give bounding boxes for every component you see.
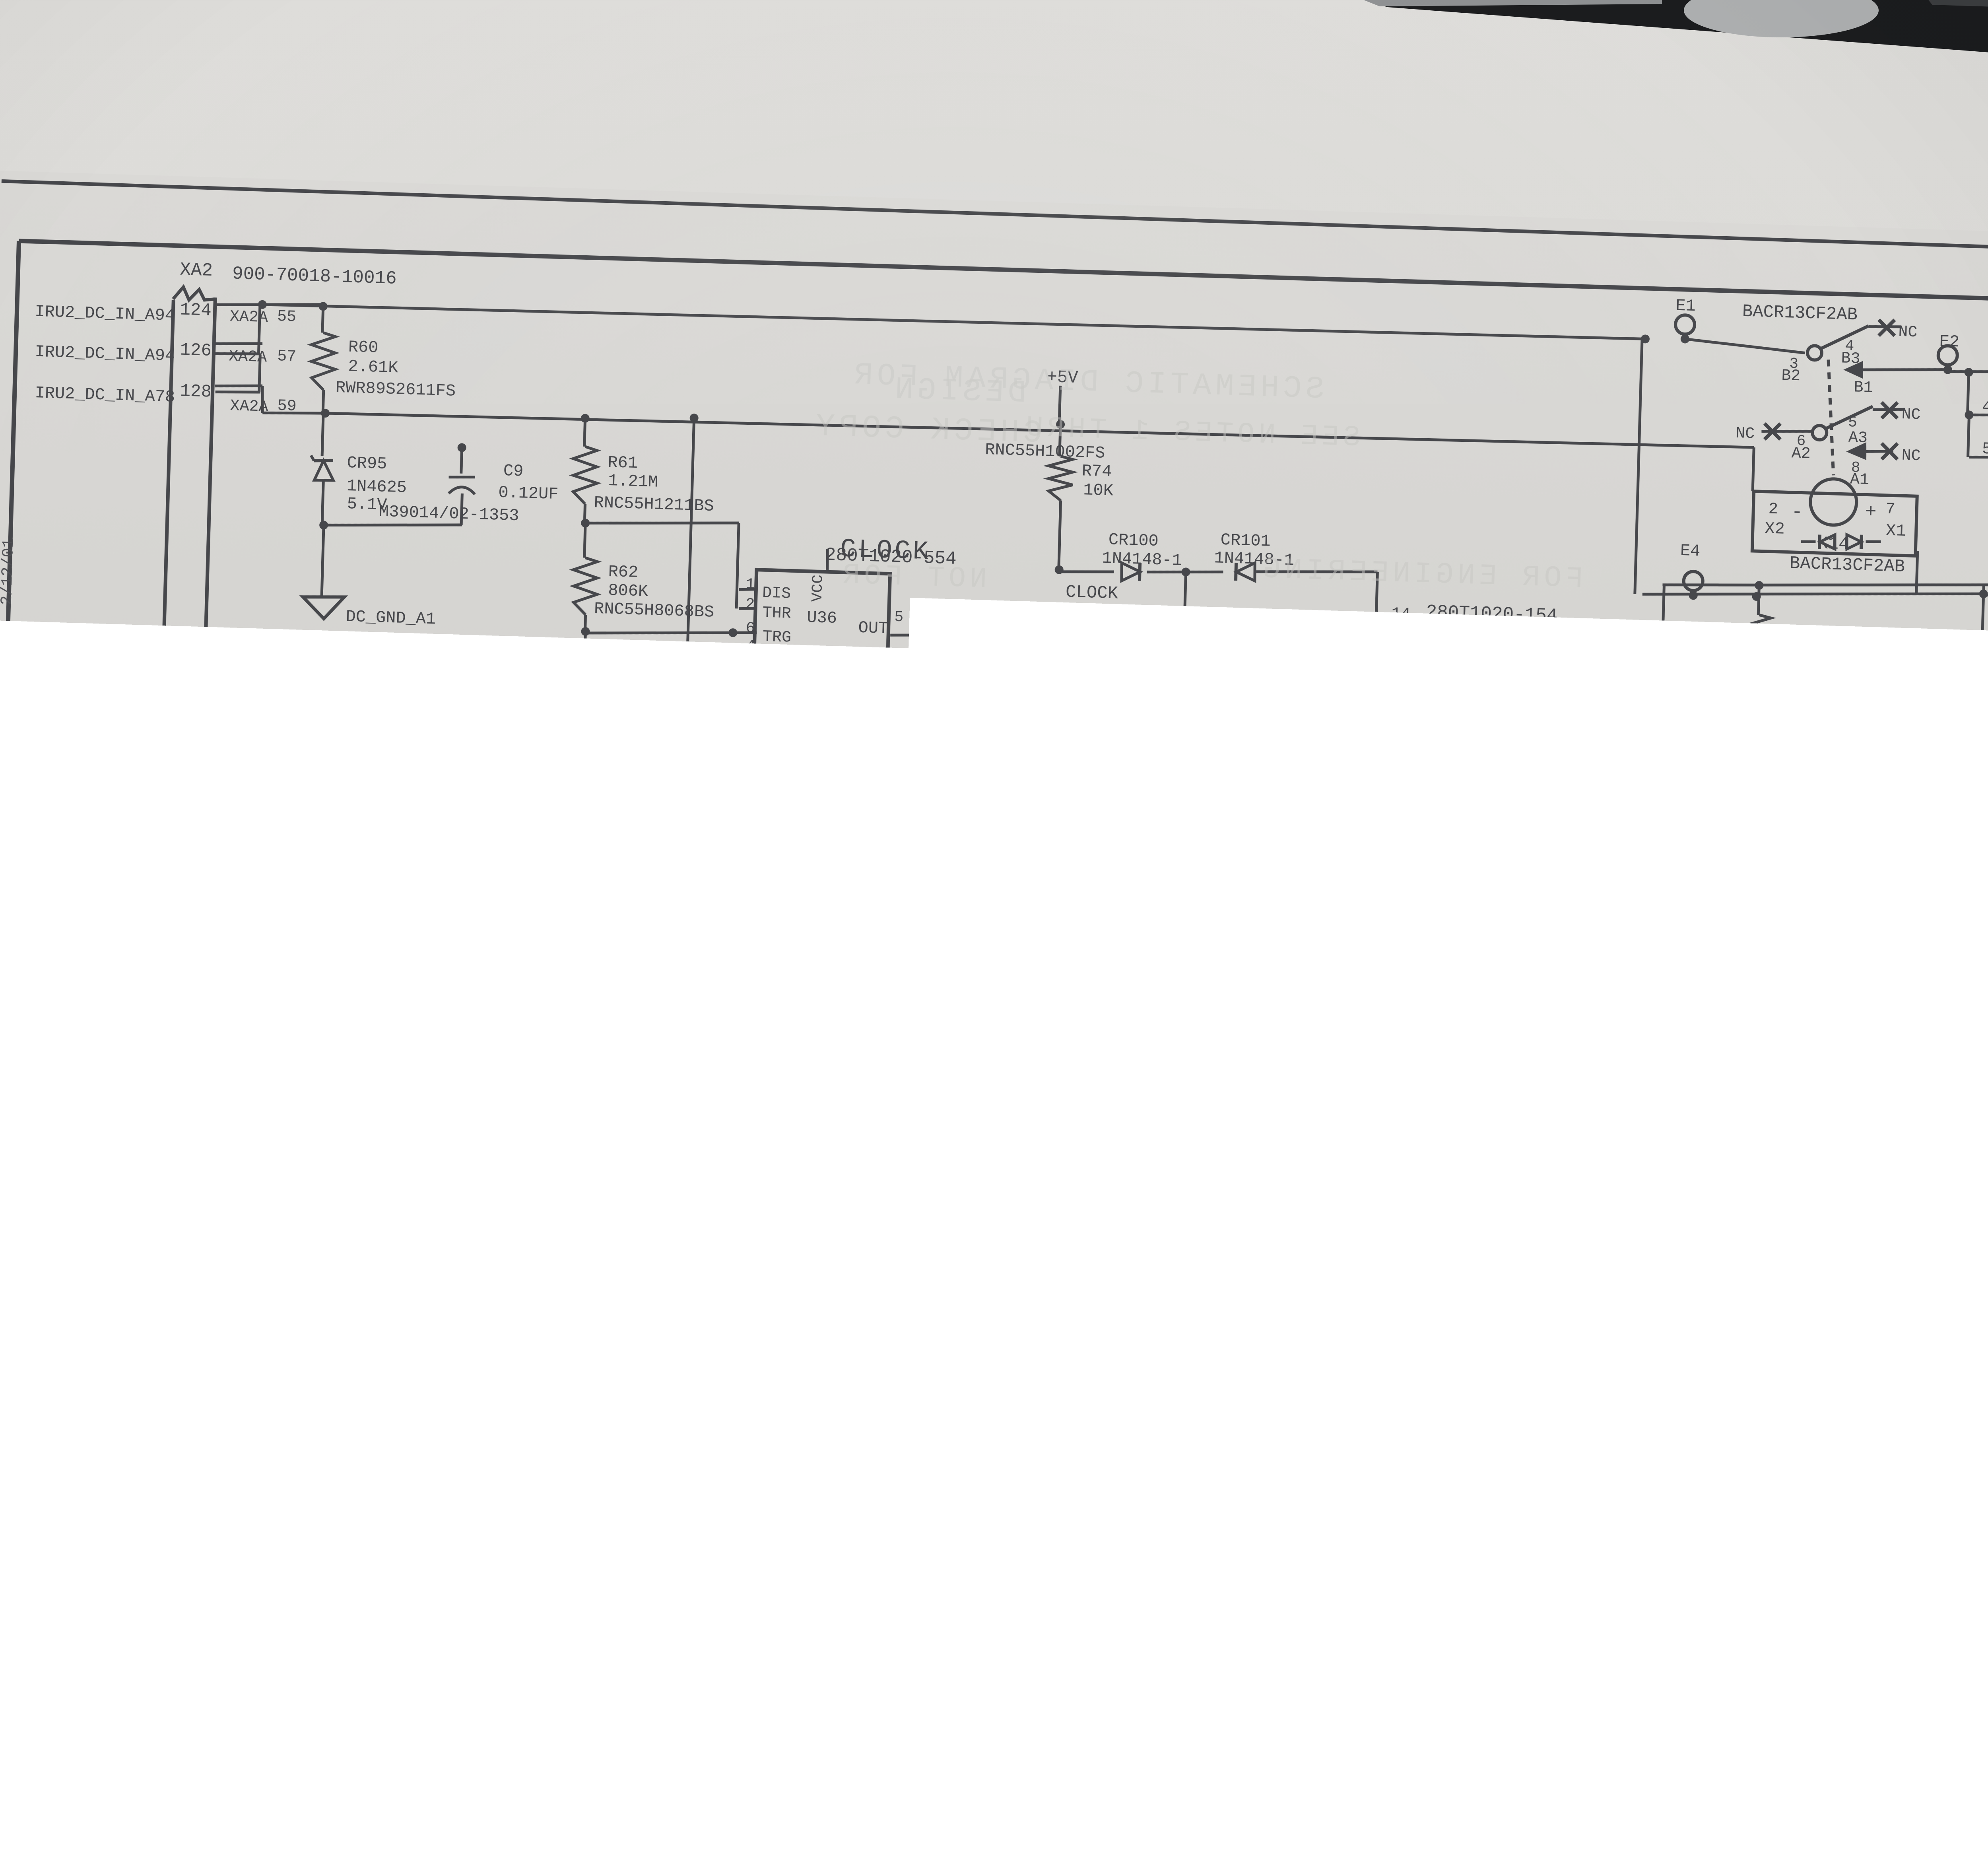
wire clock vertical down to latch CLK [1183,572,1186,660]
bus 71 XA2A -> 209 CLK_OUT_A_JUMPER [1206,902,1988,955]
wire minus vertical [747,1140,748,1141]
resistor R62 806K RNC55H8068BS [584,523,585,558]
resistor R75 100K RNC55H1003FS [1184,655,1194,665]
title block vertical dividers [1756,1609,1759,1706]
resistor R63 1.07M RNC55H1074FS [352,810,378,853]
wire R61 bottom node to U36 DIS/THR [581,519,590,528]
diode CR96 1N4148-1 [247,994,264,1012]
switch A2-A3 contact [1812,425,1827,440]
NC left of A2 [1761,430,1812,433]
mate bracket 49 XA2A [1969,412,1988,418]
wire pin128 join to second bus [262,386,263,413]
wire bus2 junction vertical (clock jumper) [1202,933,1211,942]
U39 pin 1 wire from R76 [1758,662,1759,688]
wire B1 to E2 [1861,367,1948,373]
resistor R72 5.11K RNC55H5111FS [334,1405,390,1428]
op-amp comparator1 280T1020-542 LM139A (AC monitor) [575,978,688,1127]
drawing frame left border [0,241,19,1731]
wire 115VAC_RTN rail [214,1172,542,1191]
ground below pwr/gnd box [1381,1111,1423,1135]
wire comparator3 output to R77 [1741,732,1744,836]
resistor R71 17.2K RNC55H1722DS [240,1303,241,1331]
wire bus junction to switch B2 [1641,334,1650,344]
resistor R61 1.21M RNC55H1211BS [584,418,585,447]
diode CR101 1N4148-1 [1236,562,1255,581]
wire R73 bottom to R81 [813,1567,899,1572]
wire RESET node to counter circuit R input [1564,1196,1565,1199]
U39 LED [1839,705,1855,722]
U39 light arrows [1866,714,1881,723]
wire +5V node to R74 [1056,420,1065,429]
wire comparator2 output RESET node [901,1191,1060,1200]
resistor R66 165K RNC55H1653FS [532,1235,533,1273]
wire second bus (pins 126/128) running right [325,404,1754,457]
resistor R67 1M RNC55H1004FS [528,1188,537,1197]
wire drop 49 to 51 [1968,415,1969,457]
wire 115VAC_MON from bar [213,776,365,785]
wire comparator4 output RESET_N [1118,1411,1340,1424]
resistor R74 10K RNC55H1002FS [1060,424,1060,456]
wire pin 126 drop [262,344,263,354]
op-amp comparator4 280T1020-5434 LM139A [1007,1373,1120,1487]
U38-2 pin 6 RST bubble [1280,1410,1293,1423]
wire U36 GND pin down to rail [820,700,822,768]
wire relay X1 to E3 rail [1916,551,1918,594]
wire K to ground [1386,709,1388,746]
wire CLK from left (clock net) [1158,1393,1280,1400]
wire node left to CR96 branch [255,886,363,892]
wire U36 OUT pin5 down [890,633,952,637]
wire RESET net from CR102 line [980,1330,1238,1346]
wire U36 pin3 CV down to C11 [715,679,757,682]
wire ground rail under U36 [586,761,823,776]
resistor R64 100K RNC55H1003FS [362,998,364,1051]
IC U38 HC73 LATCH box [1421,621,1552,724]
wire CR95-C9 bottom join [324,521,462,529]
arrow B1 (wiper) [1846,363,1862,377]
resistor R76 2.8K RLR20C2801FS [1758,585,1759,615]
wire AC monitor node row [363,991,579,1004]
node below R63 [359,883,368,892]
U38-2 pin 5 CLK bubble [1280,1390,1293,1403]
IC U36 LM556C CLOCK timer box [753,570,890,704]
zener CR95 1N4625 5.1V [322,413,323,456]
ground below CR134 [1963,770,1988,794]
ground below R66 [512,1337,553,1360]
wire IP from U38-2 Q [1468,1221,1495,1223]
wire +5V bus into U36 VCC [827,549,828,570]
drawing frame top border [19,238,1988,309]
connector XA2 left bar [138,300,173,1560]
ground below R75 [1165,758,1207,781]
capacitor C13 0.56UF M39003/01-3072 [237,1416,238,1454]
AND gate U41 HC21 (upper) [1880,1218,1948,1278]
wire comparator3 plus input [1563,762,1628,766]
capacitor C11 0.01UF M39014/01-1575 [714,681,714,715]
wire clock net vertical (mid) [1153,860,1157,999]
wire DECODER_OUTPUT net [1332,659,1338,853]
resistor R60 2.61K RWR89S2611FS [322,305,323,332]
IC U40 HC4020 counter box [1503,1167,1642,1457]
wire CR101 to latch J net [1256,568,1378,575]
U40 pin 10 IP bubble [1497,1215,1510,1228]
ground below R73 [813,1570,814,1607]
switch B2-B3 contact [1807,346,1822,360]
wire R62 bottom TRG node [581,627,590,636]
wire comparator1 plus from R65 [542,1084,580,1086]
U39 pin 2 wire from comparator output [1744,730,1825,734]
connector XA2 left bar bottom break [175,1560,218,1584]
title block bottom line [1700,1688,1988,1721]
wire comparator1 minus from AC node [449,993,579,1001]
wire bus from pin 124 to top-right switch area [262,297,1645,347]
AND gate U41 HC21 (lower) [1750,1327,1842,1418]
opto U39 OMA134L box [1822,676,1932,786]
node comparator1 output [725,1044,734,1053]
wire U36 RST from second bus [687,418,694,650]
wire 47-junction drop to 49 [1967,372,1969,415]
capacitor C9 0.12UF M39014/02-1353 [461,448,462,474]
wire R80/R81 node to comparator4 plus [903,1457,1010,1463]
resistor R78 10K RNC55H1002FS on RESET_N bus [1325,886,1377,909]
XA2A mate bracket 55 [258,305,260,354]
IC U36 LM556C power-up timer box [524,1371,661,1508]
wire output node down to pin6 node [745,1051,747,1141]
wire TEST_MONITOR drop [749,962,751,970]
capacitor C10 0.0051UF CCR06CG512FR [584,631,585,691]
resistor R70 1K RNC55H1001FS [297,1251,359,1275]
wire E3 stem down [1980,585,1984,699]
zener CR134 1N4946 56V [1983,699,1984,718]
dashed link to relay actuator [1825,359,1837,475]
wire latch-Q12 top rail to R76 [1662,582,1759,588]
wire RST from +5V column [399,1263,404,1459]
wire latch RST from below [1295,673,1409,682]
wire Q12 up to E-line [1662,585,1664,645]
wire E2 to connector pin 47 [1948,369,1988,375]
arrow A1 (wiper) [1849,444,1865,458]
wire PWRUP_A with R70 [209,1260,297,1265]
diode CR100 1N4148-1 [1060,570,1114,573]
label CLOCK (mid) [1152,936,1161,945]
capacitor C14 0.01UF M39014/01-1575 [693,1504,695,1555]
ground below C13 [217,1510,258,1534]
wire E1 vertical down to bottom rail [1635,339,1642,594]
title block divider rows [1759,1669,1988,1687]
U39 phototransistor [1896,716,1897,748]
gate2 input wires [1862,1339,1863,1340]
page edge line of sheet above [0,181,1988,256]
mate bracket 51 XA2A [1969,455,1988,460]
wire comparator4 minus from RESET net [980,1394,1010,1396]
wire latch CLK from clock vertical [1186,652,1409,666]
resistor R81 97.6K RNC55H9762FS [902,1460,903,1499]
relay diodes inside box [1820,534,1835,549]
wire PWRUP_B [203,1284,813,1322]
latch pin 2 RST bubble [1409,670,1422,683]
wire K tie [1234,1418,1235,1440]
XA2A mate bracket 57 [259,355,260,392]
gate1 input wires from Q4 Q5 Q8 Q10 [1846,1203,1847,1220]
wire THR/TRG node from R72 [478,1411,487,1420]
switch B3 NC terminal [1869,326,1901,327]
wire bottom rail under relay [1642,583,1984,604]
node CLOCK [1054,565,1064,574]
wire CV to C14 [495,1488,528,1490]
op-amp comparator 280T1020-5433 LM139A [1624,665,1746,802]
wire pin6 run to comparator2 minus [747,1139,797,1142]
resistor R73 10K RNC55H1002FS [812,1436,813,1479]
latch pin 1 CLK bubble [1409,652,1422,665]
ground DC_GND_A1 below CR95 [322,525,324,597]
opto output small box [1899,693,1950,723]
wire Q9 up to U40 IP [1464,1222,1468,1381]
wire CR100 to CR101 [1147,569,1223,574]
relay K14 coil [1810,478,1857,526]
wire CR99 left to monitor node [750,992,987,1006]
bus 23 XA2A -> 92 TEST_MONITOR [750,930,1988,1011]
op-amp comparator2 280T1020-543 LM139A (RESET) [793,1127,903,1265]
wire R67 node down to comparator2 plus [531,1192,532,1235]
capacitor C12 2UF M39014/00-0115 [447,997,449,1075]
ground below C14 [673,1618,715,1641]
wire U36-2 output node up to comparator4 [813,1436,814,1436]
relay K14 box [1752,491,1917,556]
IC U38 HC73 counter flip-flop box [1291,1342,1424,1457]
title block frame [1700,1600,1988,1624]
A3 NC terminal [1873,408,1905,410]
diode CR97 1N5618 [363,887,364,908]
wire RST from RESET_N node [1162,1414,1280,1421]
ground DC_GND_A1 below U36 [822,769,823,794]
bus 73 XA2A -> 211 CLK_IN_A_JUMPER [1206,923,1988,976]
wire VCC +5V stem [1059,386,1060,424]
